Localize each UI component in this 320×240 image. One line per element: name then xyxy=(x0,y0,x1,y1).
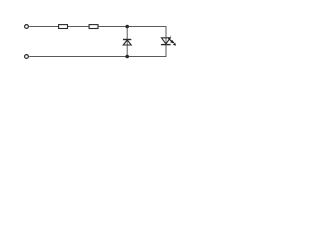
node junction top xyxy=(125,25,129,29)
terminal bottom-left xyxy=(25,55,29,59)
terminal top-left xyxy=(25,25,29,29)
resistor R1 xyxy=(59,25,68,29)
LED D2 xyxy=(161,36,176,46)
resistor R2 xyxy=(89,25,98,29)
diode D1 xyxy=(123,40,131,46)
wire diode branch vertical xyxy=(126,27,128,57)
wire top rail, right vertical, bottom rail xyxy=(29,27,166,57)
node junction bottom xyxy=(125,55,129,59)
